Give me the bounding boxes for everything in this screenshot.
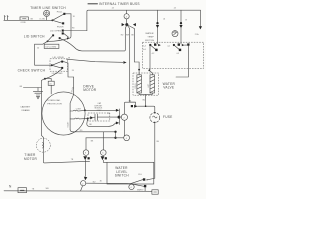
svg-text:4-3: 4-3 [176, 53, 179, 55]
svg-text:LT-GN: LT-GN [40, 18, 46, 20]
svg-text:4: 4 [126, 138, 127, 140]
fuse [150, 112, 160, 123]
wire to ground [23, 88, 41, 91]
wire riser x71 [69, 14, 71, 38]
svg-text:36: 36 [100, 181, 102, 183]
svg-text:4-6: 4-6 [143, 49, 146, 51]
svg-text:COLD: COLD [135, 83, 137, 89]
svg-text:CABINET: CABINET [20, 105, 31, 108]
connector circled 2b [121, 114, 127, 120]
svg-text:24: 24 [112, 8, 114, 10]
empty contact [144, 185, 146, 187]
temp switch exit left [148, 46, 151, 70]
wire lid pole1 to timer harness [60, 29, 126, 51]
connector circled 2 [81, 181, 86, 186]
check switch dashed box [50, 59, 68, 71]
svg-text:MOTOR: MOTOR [83, 88, 97, 92]
wire junction to overload [45, 79, 51, 82]
svg-text:PROTECTOR: PROTECTOR [47, 103, 62, 105]
svg-text:VALVE: VALVE [163, 86, 174, 90]
label WATER LEVEL SWITCH [115, 166, 130, 178]
svg-text:START: START [66, 121, 69, 128]
wire check lower contact to junction [46, 69, 62, 79]
connector box 24 [48, 81, 54, 85]
svg-text:CONT: CONT [76, 108, 82, 110]
svg-text:SWITCH: SWITCH [145, 40, 155, 42]
svg-text:36: 36 [146, 180, 148, 182]
junction dots motor exits [114, 131, 116, 139]
svg-text:LID OPEN: LID OPEN [53, 57, 64, 59]
svg-text:MOTOR: MOTOR [24, 157, 38, 161]
label WATER TEMP SWITCH [145, 32, 155, 42]
drive motor circle [42, 92, 85, 135]
cord connector box [20, 17, 34, 24]
motor winding wires [70, 94, 87, 129]
svg-text:CHECK SWITCH: CHECK SWITCH [18, 68, 46, 72]
svg-text:N: N [9, 185, 12, 189]
svg-text:LID OPEN: LID OPEN [50, 30, 61, 32]
motor exit BK [86, 137, 116, 139]
connector circled 8 [83, 138, 89, 156]
wire line cord to switch [9, 19, 52, 21]
temp switch contact cluster A [143, 43, 161, 55]
connector circled 6 [101, 132, 107, 156]
svg-text:24: 24 [163, 18, 165, 20]
buss right drop terminal [195, 10, 202, 36]
wire BU to level switch [86, 182, 131, 184]
svg-text:LID CLOSED: LID CLOSED [46, 46, 57, 48]
svg-text:40: 40 [37, 48, 39, 50]
capacitor label CAP DEPOSIT MODELS ONLY [94, 102, 103, 112]
svg-text:FILL: FILL [138, 174, 142, 176]
wire check switch out right [63, 62, 73, 95]
water valve dashed box [133, 73, 159, 95]
svg-text:CORD: CORD [21, 22, 27, 24]
power cord plug [4, 16, 9, 21]
svg-text:PUSH: PUSH [57, 27, 64, 29]
harness wire 2 [130, 29, 136, 103]
contact under 6 [101, 156, 107, 162]
svg-text:6: 6 [102, 153, 103, 155]
terminal cluster under conn4 [122, 19, 136, 26]
valve solenoid hot [150, 75, 155, 93]
svg-text:2: 2 [82, 183, 83, 185]
label WATER VALVE [163, 82, 176, 90]
temp switch contact cluster B [167, 43, 184, 55]
svg-text:OVERLOAD: OVERLOAD [47, 99, 60, 102]
node valve feed [138, 69, 140, 71]
node start [87, 118, 89, 120]
label CABINET FRAME [20, 105, 31, 112]
harness wire 3 to valve [134, 29, 139, 75]
wire box to motor [50, 85, 52, 94]
svg-text:TEMP: TEMP [147, 36, 154, 38]
wire pole1 common down left [35, 41, 51, 65]
wire PULL to riser [65, 13, 71, 15]
LID CLOSED boxed label [44, 44, 59, 48]
svg-text:4-1: 4-1 [167, 45, 170, 47]
branch to conn2 [81, 186, 83, 191]
wire check to harness [67, 59, 123, 62]
label TIMER MOTOR [24, 153, 38, 161]
capacitor dashed box [88, 113, 110, 121]
lid switch pole2 contacts [62, 30, 69, 38]
fill contact [143, 178, 145, 180]
water temp switch drop 2 [163, 10, 187, 44]
wire junction down to timer motor [42, 79, 90, 163]
internal timer buss line [87, 10, 200, 30]
motor switch strip [116, 109, 121, 125]
timer line switch contacts [51, 11, 65, 28]
svg-text:8: 8 [85, 153, 86, 155]
connector circled 4 top [124, 10, 129, 19]
node cont [84, 109, 86, 111]
capacitor C [93, 114, 117, 120]
svg-text:4: 4 [126, 16, 127, 18]
lid switch pole1 [47, 34, 70, 42]
timer cam symbol [40, 10, 50, 20]
junction node [44, 78, 46, 80]
valve solenoid cold [137, 75, 142, 93]
svg-text:SWITCH: SWITCH [115, 174, 130, 178]
wire cont to strip [85, 109, 116, 111]
label OVERLOAD PROTECTOR [47, 99, 62, 105]
svg-text:WATER: WATER [145, 32, 153, 35]
svg-text:4-4: 4-4 [143, 45, 146, 47]
terminal box bottom right [152, 190, 158, 194]
svg-text:37: 37 [185, 19, 187, 21]
water temp switch dashed box [143, 42, 204, 68]
timer motor circle [36, 138, 50, 152]
wire conn2b up BK [124, 102, 135, 114]
svg-text:18: 18 [73, 16, 75, 18]
centrifugal arm [90, 116, 93, 119]
svg-text:FRAME: FRAME [22, 109, 31, 112]
svg-text:24: 24 [174, 8, 176, 10]
contact under 8 [83, 156, 89, 180]
check switch contacts [51, 61, 63, 69]
wire conn2b down [123, 120, 125, 135]
temp switch exit right [176, 45, 188, 77]
wire fuse down [147, 122, 155, 179]
internal timer buss leader [88, 3, 98, 5]
svg-text:4: 4 [131, 187, 132, 189]
svg-text:FUSE: FUSE [163, 115, 173, 119]
fuse feed wire [138, 106, 155, 112]
wire start to lower strip [87, 119, 116, 127]
svg-text:4-2: 4-2 [152, 53, 155, 55]
neutral line [4, 190, 152, 193]
label DRIVE MOTOR [83, 84, 97, 92]
svg-text:TIMER LINE SWITCH: TIMER LINE SWITCH [30, 6, 66, 10]
water level switch box [107, 162, 154, 184]
valve bottoms joined [139, 93, 152, 106]
svg-text:LID SWITCH: LID SWITCH [24, 34, 45, 38]
motor exit RD [70, 130, 115, 132]
connector circled 4 lower [116, 135, 130, 141]
timer harness fan [121, 25, 135, 37]
svg-text:24: 24 [72, 70, 74, 72]
svg-text:PULL: PULL [57, 11, 64, 13]
svg-text:38: 38 [68, 57, 70, 59]
svg-text:ONLY: ONLY [97, 110, 103, 112]
cabinet frame ground [33, 91, 42, 98]
temp switch dial symbol [172, 31, 178, 37]
svg-text:2: 2 [124, 117, 125, 119]
svg-text:INTERNAL TIMER BUSS: INTERNAL TIMER BUSS [99, 2, 140, 6]
level switch arms [129, 180, 144, 190]
neutral cord connector [18, 188, 27, 193]
terminal into fuse feed [131, 105, 138, 108]
water temp switch drop 1 [156, 10, 159, 44]
lid switch pole2 wire [64, 30, 87, 32]
